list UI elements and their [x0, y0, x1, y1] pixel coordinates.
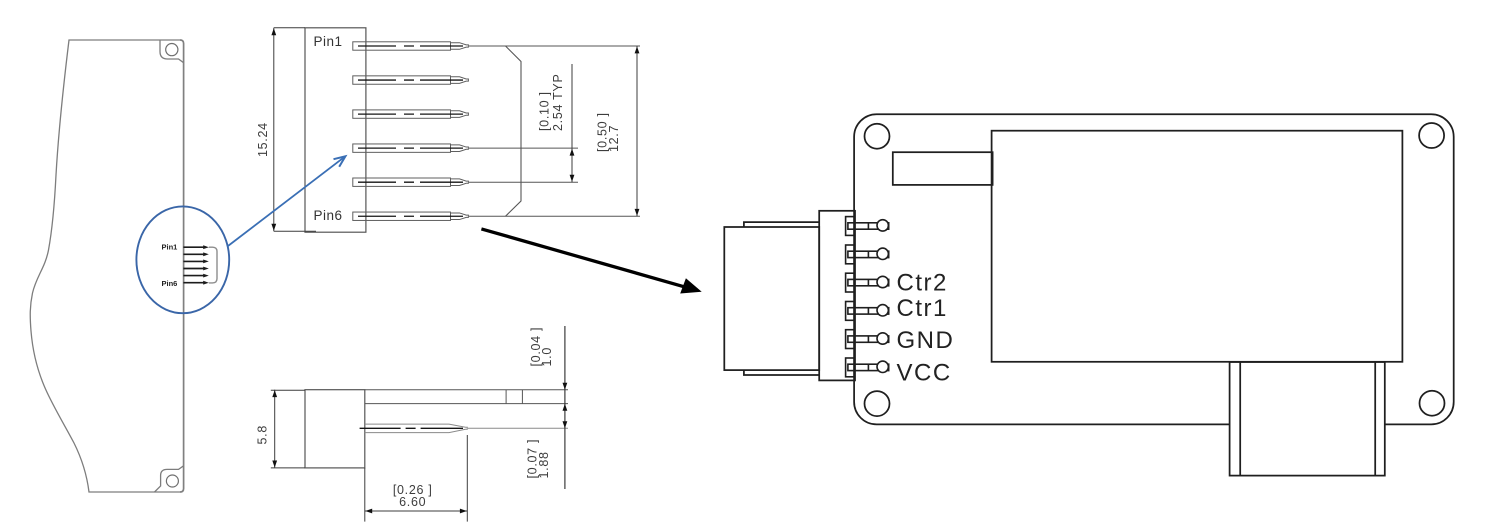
dim text 15.24 [256, 122, 270, 157]
pin6 extension line [469, 215, 640, 217]
svg-text:5.8: 5.8 [256, 425, 270, 444]
module pin 4 [846, 302, 889, 321]
connector top lip [744, 222, 819, 227]
pin1 extension line [469, 45, 640, 47]
dim text [0.50] 12.7 [596, 112, 622, 152]
svg-text:[0.10 ]: [0.10 ] [538, 91, 552, 131]
dim 5.8 [271, 390, 305, 468]
svg-text:15.24: 15.24 [256, 122, 270, 157]
top tab cut [160, 40, 184, 63]
blue detail arrow [227, 156, 345, 246]
module pin 2 [846, 245, 889, 264]
pin 1 (front view) [353, 42, 469, 50]
dim 12.7 line [636, 46, 638, 216]
board outline [854, 114, 1454, 424]
svg-text:1.88: 1.88 [537, 451, 551, 478]
side pin [365, 424, 468, 433]
pin block bar (side) [365, 390, 568, 404]
mounting hole TR [1419, 123, 1444, 148]
svg-text:1.0: 1.0 [540, 347, 554, 366]
dim 15.24 [274, 28, 316, 231]
connector body [724, 227, 819, 370]
dim 2.54 line [571, 64, 573, 182]
header body [305, 28, 366, 232]
module pin 3 [846, 273, 889, 292]
dim 1.0 / 1.88 vertical line [564, 326, 566, 489]
svg-text:Ctr2: Ctr2 [897, 269, 948, 296]
pin5 extension line [469, 181, 578, 183]
module pin 6 [846, 358, 889, 377]
dim 6.60 [365, 435, 468, 522]
pin 4 (front view) [353, 144, 469, 152]
svg-text:6.60: 6.60 [399, 495, 426, 509]
svg-text:Ctr1: Ctr1 [897, 295, 948, 322]
antenna tab [893, 152, 993, 185]
pin4 extension line [469, 147, 578, 149]
bottom tab cut [155, 466, 184, 492]
svg-text:2.54 TYP: 2.54 TYP [551, 74, 565, 132]
svg-text:Pin6: Pin6 [162, 279, 178, 288]
pin 3 (front view) [353, 110, 469, 118]
detail bracket [209, 247, 217, 283]
case outline (side profile) [30, 40, 183, 492]
side body [305, 390, 365, 468]
mounting hole BR [1420, 391, 1445, 416]
mounting hole top [166, 44, 178, 56]
connector bottom lip [744, 370, 819, 375]
svg-text:Pin1: Pin1 [314, 34, 343, 49]
dim text 5.8 [256, 425, 270, 444]
mounting hole TL [865, 124, 890, 149]
svg-text:GND: GND [897, 327, 955, 354]
dim text [0.07] 1.88 [526, 439, 552, 479]
pin 2 (front view) [353, 76, 469, 84]
module pin 5 [846, 330, 889, 349]
pin 6 (front view) [353, 212, 469, 220]
housing outline [506, 46, 522, 216]
pin 5 (front view) [353, 178, 469, 186]
module pin 1 [846, 217, 889, 236]
svg-text:12.7: 12.7 [607, 125, 621, 152]
svg-text:VCC: VCC [897, 359, 952, 386]
big component [992, 131, 1403, 362]
mounting hole BL [865, 391, 890, 416]
dim text [0.10] 2.54 TYP [538, 74, 566, 132]
svg-text:Pin6: Pin6 [314, 208, 343, 223]
usb connector [1230, 362, 1385, 476]
detail circle (blue) [136, 206, 229, 313]
connector flange [819, 211, 855, 381]
black arrow [481, 229, 686, 287]
mounting hole bottom [166, 475, 178, 487]
dim text [0.04] 1.0 [529, 327, 554, 367]
detail pins with arrow tips [183, 247, 204, 283]
svg-text:Pin1: Pin1 [162, 243, 178, 252]
